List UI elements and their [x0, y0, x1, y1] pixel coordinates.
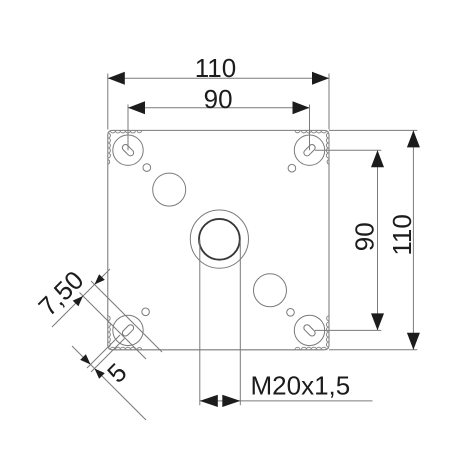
small pilot hole bottom-right [287, 309, 295, 317]
arrow SE 5 [95, 369, 105, 379]
corner scallops bottom-left [108, 316, 142, 350]
center boss outer circle [190, 210, 248, 268]
corner scallops bottom-right [295, 316, 329, 350]
dimension line 110 top [108, 77, 329, 79]
boss circle lower-right [254, 274, 287, 307]
corner scallops top-right [295, 130, 329, 164]
arrow down 90 right [371, 313, 384, 330]
dimension line 90 right [377, 150, 379, 330]
dimension line 90 top [128, 107, 310, 109]
svg-text:M20x1,5: M20x1,5 [251, 370, 351, 400]
arrow left 90 top [128, 101, 145, 114]
arrow up 90 right [371, 150, 384, 167]
mounting hole circle top-left [113, 135, 143, 165]
extension line upper for 5 [87, 335, 120, 368]
arrow right M20 [222, 395, 240, 407]
svg-text:5: 5 [101, 357, 132, 388]
small pilot hole top-left [143, 164, 151, 172]
svg-text:110: 110 [387, 214, 417, 255]
mounting hole circle top-right [294, 135, 324, 165]
extension line left for M20 [199, 239, 201, 405]
extension line right for M20 [239, 239, 241, 405]
arrow NE 7,50 [95, 274, 105, 284]
dimension line 7,50 [52, 269, 110, 327]
small pilot hole top-right [288, 164, 296, 172]
extension line bottom for 90 right [315, 329, 381, 331]
extension line top for 110 right [329, 129, 417, 131]
extension line left for 110 top [107, 74, 109, 130]
arrow left M20 [200, 395, 218, 407]
arrow NW 5 [80, 354, 90, 364]
extension line right for 90 top [309, 105, 311, 151]
arrow right 90 top [293, 101, 310, 114]
corner scallops top-left [108, 130, 142, 164]
dimension line 5 [72, 346, 146, 420]
box outline [108, 130, 329, 349]
extension line left for 90 top [127, 105, 129, 151]
extension line NE for 7,50 [91, 281, 162, 352]
boss circle upper-left [153, 173, 186, 206]
mounting hole circle bottom-left [113, 315, 143, 345]
arrow up 110 right [407, 130, 420, 147]
arrow down 110 right [407, 333, 420, 350]
svg-text:110: 110 [195, 53, 236, 83]
mounting slot bottom-left [121, 323, 135, 337]
dimension line 110 right [412, 130, 414, 349]
M20 threaded hole circle [199, 219, 240, 260]
extension line lower for 5 [91, 339, 125, 373]
mounting slot top-right [303, 143, 317, 157]
mounting slot top-left [121, 143, 135, 157]
extension line SW for 7,50 [80, 293, 147, 360]
arrow left 110 top [108, 72, 125, 85]
mounting slot bottom-right [303, 323, 317, 337]
svg-text:90: 90 [204, 84, 233, 114]
small pilot hole bottom-left [142, 308, 150, 316]
arrow right 110 top [312, 72, 329, 85]
extension line right for 110 top [328, 74, 330, 130]
extension line top for 90 right [315, 149, 381, 151]
svg-text:7,50: 7,50 [32, 265, 89, 322]
svg-text:90: 90 [350, 222, 380, 251]
arrow SW 7,50 [73, 296, 83, 306]
mounting hole circle bottom-right [294, 315, 324, 345]
extension line bottom for 110 right [329, 349, 417, 351]
dimension line M20 [200, 400, 373, 402]
